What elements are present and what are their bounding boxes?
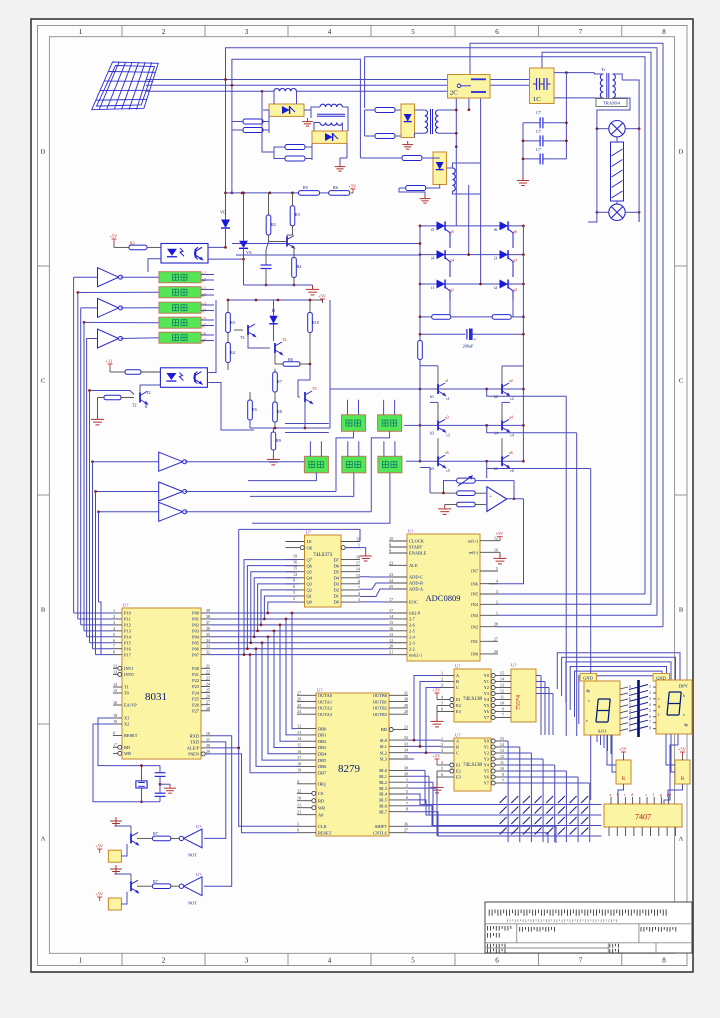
svg-text:6: 6 — [495, 957, 499, 965]
svg-text:B: B — [41, 607, 46, 614]
svg-text:P20: P20 — [192, 666, 200, 671]
svg-text:R6: R6 — [333, 185, 338, 190]
power +5V R2 — [678, 747, 687, 757]
svg-text:RESET: RESET — [124, 733, 138, 738]
svg-text:9: 9 — [389, 548, 391, 553]
svg-text:RL7: RL7 — [379, 809, 388, 814]
power +5V 138a — [433, 688, 442, 698]
svg-text:15: 15 — [113, 688, 117, 693]
svg-text:IN1: IN1 — [471, 639, 478, 644]
svg-text:2-7: 2-7 — [409, 617, 416, 622]
thyristor module M2 — [312, 131, 347, 143]
svg-text:2: 2 — [441, 677, 443, 682]
svg-text:c3: c3 — [446, 432, 450, 437]
wire left loop M1 — [232, 121, 237, 123]
svg-text:P25: P25 — [192, 696, 200, 701]
wire X1 to crystal rail — [98, 718, 160, 766]
svg-text:U?: U? — [408, 529, 413, 534]
wire AO1 bottom to R — [607, 735, 616, 765]
svg-text:D5: D5 — [334, 569, 340, 574]
svg-text:3: 3 — [358, 597, 360, 602]
svg-text:R9: R9 — [276, 438, 281, 443]
svg-text:8279: 8279 — [338, 763, 361, 775]
wires transformer T2 — [311, 107, 320, 110]
svg-text:Y5: Y5 — [484, 769, 490, 774]
title block outer — [485, 902, 692, 953]
wire Tr to lamp ring — [597, 98, 630, 129]
svg-text:ref(+): ref(+) — [468, 538, 479, 543]
svg-text:a5: a5 — [445, 450, 449, 455]
svg-text:P17: P17 — [124, 652, 132, 657]
ground cluster — [267, 455, 280, 465]
thyristor i5 — [437, 221, 446, 230]
svg-text:16: 16 — [494, 547, 498, 552]
svg-text:Q1: Q1 — [307, 594, 312, 599]
wire DPY right down — [677, 734, 679, 745]
svg-text:7: 7 — [649, 721, 651, 725]
svg-text:28: 28 — [494, 622, 498, 627]
transistor Q2 — [502, 383, 509, 396]
svg-text:R7: R7 — [153, 831, 158, 836]
transistor T7 — [131, 880, 138, 893]
wire ADC IN5-IN2 long — [498, 593, 645, 595]
svg-text:26: 26 — [206, 694, 210, 699]
wires opto2 — [208, 300, 216, 373]
resistor R7 vertical — [273, 372, 278, 392]
svg-text:LE: LE — [307, 539, 313, 544]
ground NOT2 — [110, 865, 122, 874]
key matrix key symbols — [500, 796, 507, 803]
svg-text:P02: P02 — [192, 623, 199, 628]
resistor R8 vertical — [273, 402, 278, 422]
svg-text:i6: i6 — [494, 227, 497, 232]
svg-text:7: 7 — [502, 713, 504, 718]
svg-text:17: 17 — [389, 608, 393, 613]
resistor R row1b — [243, 128, 263, 133]
resistor network R a — [616, 760, 631, 784]
svg-text:Y2: Y2 — [484, 685, 489, 690]
driver box DB — [378, 415, 402, 432]
svg-text:3: 3 — [245, 957, 249, 965]
svg-text:lsb2-8: lsb2-8 — [409, 611, 421, 616]
svg-text:DB0: DB0 — [318, 726, 327, 731]
svg-text:5: 5 — [649, 709, 651, 713]
svg-text:OE: OE — [307, 545, 313, 550]
svg-text:18: 18 — [297, 761, 301, 766]
resistor left rail R25 vertical — [418, 341, 423, 360]
svg-text:DB5: DB5 — [318, 758, 327, 763]
svg-text:C: C — [456, 685, 459, 690]
svg-text:P03: P03 — [192, 629, 200, 634]
wire bridge left rail — [419, 226, 421, 317]
svg-text:RESET: RESET — [318, 830, 332, 835]
svg-text:Y4: Y4 — [484, 697, 490, 702]
wire inverter row2 bracket — [487, 425, 577, 432]
svg-text:15: 15 — [500, 671, 504, 676]
wire PV bus line 1 — [146, 79, 448, 81]
svg-text:b: b — [617, 793, 619, 797]
svg-text:33: 33 — [206, 644, 210, 649]
svg-text:U?: U? — [196, 824, 201, 829]
svg-text:RL1: RL1 — [379, 774, 387, 779]
driver box D4 — [159, 317, 201, 328]
svg-text:+5V: +5V — [110, 234, 119, 239]
svg-text:P27: P27 — [192, 708, 200, 713]
svg-text:38: 38 — [206, 614, 210, 619]
wire 755 outputs up — [536, 675, 541, 677]
svg-text:i5: i5 — [431, 227, 434, 232]
svg-text:R10: R10 — [312, 320, 319, 325]
crystal Y1 — [136, 781, 147, 788]
driver box D5 — [159, 332, 201, 343]
wire stack direct feeds — [78, 291, 159, 293]
svg-text:Y0: Y0 — [484, 673, 490, 678]
top nest wire L4 — [365, 57, 645, 594]
svg-text:a6: a6 — [509, 450, 513, 455]
resistor R5 vertical — [248, 400, 253, 420]
svg-text:Y1: Y1 — [484, 745, 489, 750]
resistor R4c vertical — [226, 343, 231, 363]
svg-text:C7: C7 — [536, 147, 541, 152]
buffer A1 — [98, 268, 119, 287]
svg-text:200uF: 200uF — [463, 344, 474, 349]
driver box DC — [304, 456, 328, 473]
wire buffer B1 — [93, 461, 159, 463]
svg-text:OUTA0: OUTA0 — [318, 693, 333, 698]
svg-text:P22: P22 — [192, 678, 199, 683]
svg-text:2: 2 — [293, 596, 295, 601]
svg-text:B: B — [456, 679, 459, 684]
wire buffer B2 — [96, 491, 159, 493]
wire opamp output — [507, 498, 524, 500]
svg-text:16: 16 — [113, 700, 117, 705]
svg-text:2: 2 — [113, 614, 115, 619]
row ruler dividers — [38, 265, 50, 267]
svg-text:INT0: INT0 — [124, 672, 134, 677]
svg-text:35: 35 — [404, 754, 408, 759]
svg-text:10: 10 — [500, 701, 504, 706]
svg-text:1: 1 — [441, 736, 443, 741]
power +5V opto1 — [110, 234, 119, 244]
title cell2 text — [520, 927, 555, 932]
wire inverter row3 bracket — [487, 461, 591, 468]
driver box D1 — [159, 272, 201, 283]
svg-text:P12: P12 — [124, 623, 131, 628]
resistor Rf1 — [457, 491, 475, 496]
buffer A3 — [98, 329, 119, 348]
svg-text:25: 25 — [297, 703, 301, 708]
svg-text:b3: b3 — [430, 430, 434, 435]
resistor R22 — [375, 134, 395, 139]
svg-text:Y3: Y3 — [484, 691, 490, 696]
svg-text:RD: RD — [318, 798, 324, 803]
transistor Q3 — [438, 419, 445, 432]
svg-text:37: 37 — [206, 620, 210, 625]
svg-text:Q0: Q0 — [307, 600, 313, 605]
svg-text:g1: g1 — [450, 287, 454, 292]
svg-text:BD: BD — [381, 727, 387, 732]
resistor R23 — [402, 156, 422, 161]
svg-text:39: 39 — [404, 771, 408, 776]
wire TXD to NOT1 — [204, 742, 226, 839]
svg-text:R7: R7 — [153, 879, 158, 884]
svg-text:Q3: Q3 — [307, 582, 313, 587]
display data bus thick — [637, 680, 640, 737]
wire crystal bottom rail — [140, 801, 160, 803]
svg-text:R6: R6 — [288, 357, 293, 362]
svg-text:A: A — [41, 836, 46, 843]
svg-text:17: 17 — [356, 561, 360, 566]
svg-text:3: 3 — [496, 589, 498, 594]
svg-text:15: 15 — [297, 743, 301, 748]
svg-text:Y6: Y6 — [484, 709, 490, 714]
transistor Q5 — [438, 455, 445, 468]
ground NOT1 — [110, 817, 122, 826]
svg-text:22: 22 — [206, 669, 210, 674]
wire bridge DC input left — [232, 243, 420, 245]
svg-text:Y7: Y7 — [484, 781, 490, 786]
svg-text:74LS138: 74LS138 — [463, 762, 482, 768]
potentiometer RP1 — [457, 478, 475, 483]
svg-text:g2: g2 — [513, 287, 517, 292]
svg-text:13: 13 — [113, 669, 117, 674]
svg-text:21: 21 — [389, 650, 393, 655]
svg-text:16: 16 — [389, 626, 393, 631]
inverter NOT1 — [184, 829, 202, 848]
wires module M1 — [273, 91, 275, 104]
svg-text:13: 13 — [389, 632, 393, 637]
ground 138a — [430, 717, 443, 727]
svg-text:ADD-C: ADD-C — [409, 575, 423, 580]
svg-text:18: 18 — [356, 555, 360, 560]
svg-text:33: 33 — [404, 741, 408, 746]
svg-text:12: 12 — [389, 638, 393, 643]
svg-text:1: 1 — [441, 671, 443, 676]
svg-text:1: 1 — [406, 777, 408, 782]
svg-text:5: 5 — [496, 566, 498, 571]
svg-text:3: 3 — [113, 620, 115, 625]
svg-text:DB4: DB4 — [318, 752, 327, 757]
svg-text:g3: g3 — [513, 258, 517, 263]
wires transformer T3 — [415, 109, 425, 111]
svg-text:7: 7 — [579, 28, 583, 36]
svg-text:C: C — [679, 378, 683, 385]
svg-text:C: C — [456, 751, 459, 756]
title text main — [489, 910, 666, 916]
svg-text:4: 4 — [649, 703, 651, 707]
svg-text:Q2: Q2 — [307, 588, 312, 593]
svg-text:b1: b1 — [430, 394, 434, 399]
wire load to lamp2 — [616, 201, 618, 204]
wire bridge row2 rail — [420, 254, 469, 256]
svg-text:+5V: +5V — [95, 844, 104, 849]
svg-text:74LS138: 74LS138 — [463, 696, 482, 702]
svg-text:DB6: DB6 — [318, 764, 327, 769]
wire cluster DD down — [250, 473, 354, 497]
svg-text:21: 21 — [297, 810, 301, 815]
power +5V rail — [349, 183, 358, 193]
svg-text:START: START — [409, 545, 423, 550]
svg-text:T4: T4 — [282, 337, 286, 342]
buffer A2 — [98, 298, 119, 317]
capacitor bank 1C — [530, 68, 555, 104]
resistor R7 not2 — [153, 884, 171, 889]
wire left loop M2 — [274, 147, 279, 159]
svg-text:TRANS4: TRANS4 — [603, 101, 620, 106]
svg-text:2-3: 2-3 — [409, 640, 416, 645]
capacitor C driver — [261, 265, 272, 269]
svg-text:AO1: AO1 — [598, 729, 608, 734]
svg-text:IN6: IN6 — [471, 581, 479, 586]
svg-text:B: B — [456, 745, 459, 750]
svg-text:IN5: IN5 — [471, 592, 479, 597]
svg-text:a4: a4 — [509, 414, 513, 419]
svg-text:ADD-A: ADD-A — [409, 587, 424, 592]
svg-text:X2: X2 — [124, 722, 129, 727]
wire 373 Q staircase to bus — [268, 602, 297, 613]
svg-text:+5V: +5V — [95, 892, 104, 897]
svg-text:IN4: IN4 — [471, 602, 479, 607]
svg-text:Q4: Q4 — [307, 575, 313, 580]
svg-text:20: 20 — [389, 644, 393, 649]
svg-text:22: 22 — [389, 560, 393, 565]
column ruler dividers — [121, 26, 123, 37]
wire ALE to 373 LE and 8279 CLK — [210, 747, 239, 749]
svg-text:D3: D3 — [334, 582, 340, 587]
resistor R7 not1 — [153, 836, 171, 841]
svg-text:26: 26 — [494, 649, 498, 654]
svg-text:7: 7 — [113, 644, 115, 649]
left bus verticals — [73, 277, 75, 613]
wire P0 data bus — [210, 612, 389, 614]
svg-text:IN2: IN2 — [471, 624, 478, 629]
driver box D3 — [159, 302, 201, 313]
wire bus link to 1C — [490, 79, 530, 81]
wire SL3 stub — [408, 758, 414, 760]
svg-text:msb2-1: msb2-1 — [409, 652, 422, 657]
inductor L2 vertical — [452, 168, 455, 191]
svg-text:a1: a1 — [445, 378, 449, 383]
svg-text:dp: dp — [684, 723, 688, 727]
capacitor C load b — [155, 793, 166, 796]
svg-text:DB2: DB2 — [318, 739, 326, 744]
resistor R1 opto1 — [129, 245, 147, 250]
svg-text:a2: a2 — [509, 378, 513, 383]
wire LE net — [239, 529, 360, 541]
svg-text:RL3: RL3 — [379, 786, 388, 791]
svg-text:CLOCK: CLOCK — [409, 539, 425, 544]
svg-text:RL6: RL6 — [379, 804, 388, 809]
transistor Q6 — [502, 455, 509, 468]
svg-text:RL0: RL0 — [379, 768, 388, 773]
load resistor hatched — [611, 142, 624, 201]
svg-text:E3: E3 — [456, 775, 462, 780]
svg-text:13: 13 — [500, 683, 504, 688]
wire SL lines to 138s — [408, 739, 441, 741]
capacitor 200uF electrolytic — [467, 329, 472, 340]
svg-text:EOC: EOC — [409, 600, 418, 605]
wire lamp1 to load — [616, 137, 618, 142]
resistor R6 — [283, 362, 300, 367]
svg-text:D0: D0 — [334, 600, 340, 605]
wire X2 to crystal rail — [93, 724, 140, 802]
wire bridge feeds from top — [455, 147, 457, 226]
wire inverter rows left extension — [330, 388, 420, 390]
svg-text:U?: U? — [455, 664, 460, 669]
svg-text:5: 5 — [113, 632, 115, 637]
resistor R2 vertical — [266, 215, 271, 235]
svg-text:ENABLE: ENABLE — [409, 551, 427, 556]
svg-text:Q5: Q5 — [307, 569, 313, 574]
resistor R10 vertical — [308, 313, 313, 333]
ground module M1 — [302, 118, 313, 126]
svg-text:OUTA1: OUTA1 — [318, 699, 332, 704]
svg-text:1: 1 — [79, 957, 83, 965]
optocoupler O2 — [160, 368, 207, 388]
svg-text:g6: g6 — [513, 229, 517, 234]
svg-text:Q7: Q7 — [307, 557, 313, 562]
svg-text:U?: U? — [306, 530, 311, 535]
resistor R row1a — [243, 119, 263, 124]
svg-text:7407: 7407 — [635, 813, 651, 822]
svg-text:C7: C7 — [536, 110, 541, 115]
svg-text:U?: U? — [511, 663, 516, 668]
svg-text:IN7: IN7 — [471, 569, 479, 574]
svg-text:38: 38 — [404, 765, 408, 770]
svg-text:+5V: +5V — [496, 531, 505, 536]
thyristor module M1 — [269, 104, 304, 116]
svg-text:C: C — [41, 378, 45, 385]
svg-text:7: 7 — [358, 585, 360, 590]
resistor Rf2 — [457, 502, 475, 507]
svg-text:RXD: RXD — [190, 734, 199, 739]
svg-text:1: 1 — [79, 28, 83, 36]
svg-text:11: 11 — [500, 695, 504, 700]
svg-text:37: 37 — [404, 828, 408, 833]
svg-text:+5V: +5V — [433, 754, 442, 759]
wire cluster DB down — [371, 431, 389, 512]
title row4 text — [488, 949, 505, 953]
drawing area frame — [49, 37, 674, 954]
svg-text:1: 1 — [649, 685, 651, 689]
svg-text:RL4: RL4 — [379, 792, 388, 797]
svg-text:25: 25 — [206, 688, 210, 693]
wire DC link rails — [419, 317, 421, 334]
IC ADC0809 — [407, 534, 480, 661]
wire OE to ground — [346, 548, 366, 552]
svg-text:D6: D6 — [334, 563, 340, 568]
svg-text:WR: WR — [318, 805, 325, 810]
svg-text:Y4: Y4 — [484, 763, 490, 768]
display bus slashes — [620, 687, 628, 689]
power box NOT1 — [108, 850, 121, 862]
IC 8279 — [316, 693, 389, 836]
svg-text:T1: T1 — [124, 685, 129, 690]
buffer B2 — [159, 482, 183, 501]
svg-text:17: 17 — [389, 597, 393, 602]
resistor R3b vertical — [290, 206, 295, 226]
svg-text:R: R — [681, 776, 685, 782]
svg-text:OUTA2: OUTA2 — [318, 706, 332, 711]
resistor R2 opto2 — [125, 370, 141, 375]
svg-text:OUTB3: OUTB3 — [373, 712, 388, 717]
GND box DPY — [653, 674, 670, 682]
IC 74LS373 — [305, 535, 342, 607]
svg-text:DB1: DB1 — [318, 733, 326, 738]
svg-text:D7: D7 — [334, 557, 340, 562]
svg-text:ALE/P: ALE/P — [187, 746, 200, 751]
svg-text:P07: P07 — [192, 652, 200, 657]
